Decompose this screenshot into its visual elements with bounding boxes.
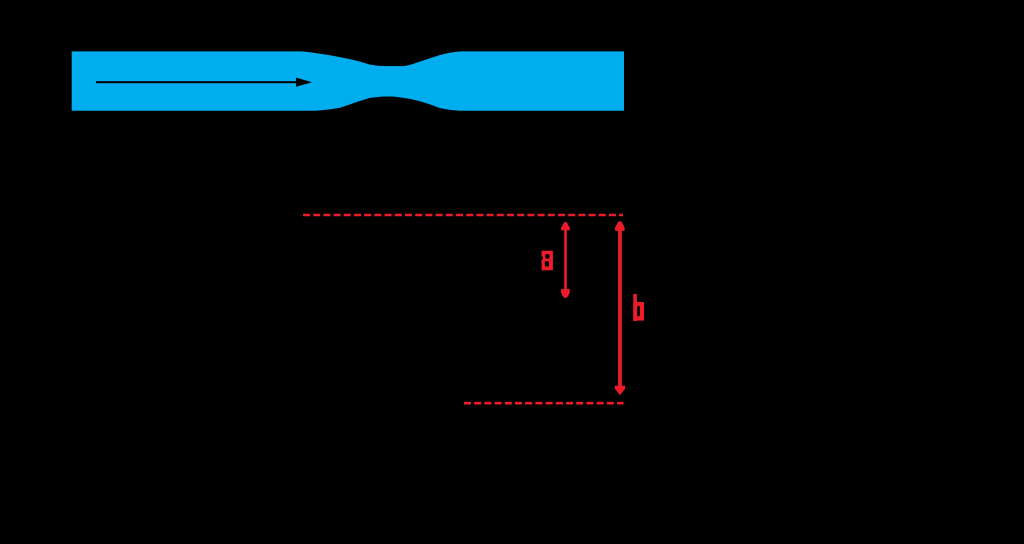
upper fluid level dashed line	[303, 214, 623, 216]
venturi tube (blue fluid)	[72, 51, 624, 110]
flow arrow	[96, 78, 312, 87]
lower fluid level dashed line	[464, 402, 624, 405]
label a	[541, 251, 553, 271]
label b	[633, 294, 644, 321]
dimension arrow b	[615, 222, 625, 396]
dimension arrow a	[561, 222, 570, 298]
